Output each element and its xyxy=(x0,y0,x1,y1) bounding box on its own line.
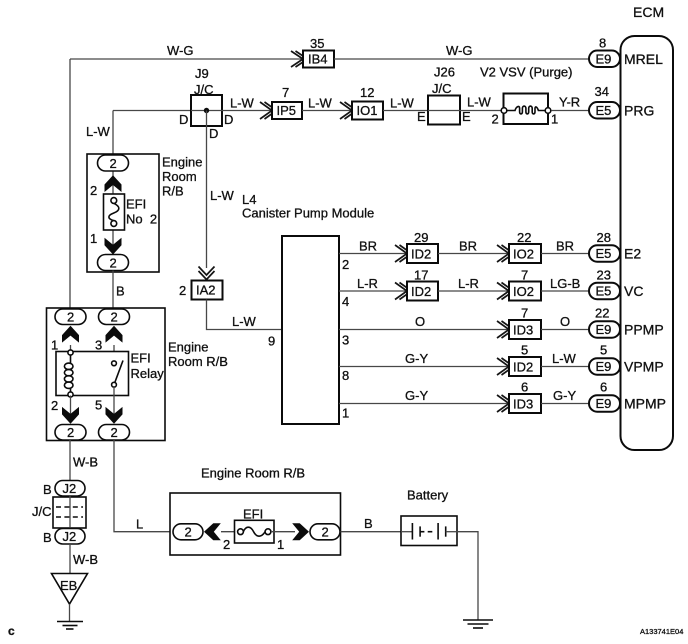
svg-text:L-R: L-R xyxy=(458,276,479,291)
connector E5 E2 xyxy=(589,245,620,262)
wire through J26 xyxy=(428,110,460,112)
svg-text:BR: BR xyxy=(556,239,574,254)
wire J26 to VSV xyxy=(460,110,504,112)
VSV pin 1 node circle xyxy=(545,108,551,114)
cavity oval 2 (bottom-left) xyxy=(173,524,203,540)
svg-text:1: 1 xyxy=(51,338,58,353)
connector J2 lower xyxy=(55,529,85,545)
svg-text:E5: E5 xyxy=(596,246,612,261)
svg-text:ID2: ID2 xyxy=(513,360,533,375)
wire relay pin3 upper xyxy=(113,345,115,361)
svg-text:2: 2 xyxy=(67,425,74,440)
battery dash xyxy=(428,531,433,533)
wire pin2 to ID2 xyxy=(339,253,407,255)
svg-text:L-W: L-W xyxy=(390,96,415,111)
svg-text:35: 35 xyxy=(310,36,324,51)
svg-text:E: E xyxy=(462,109,471,124)
svg-text:B: B xyxy=(43,530,52,545)
junction J9 J/C box xyxy=(191,95,222,126)
svg-text:IO2: IO2 xyxy=(513,284,534,299)
svg-text:22: 22 xyxy=(595,306,609,321)
wire L-W from x113 into J9 xyxy=(113,110,191,112)
svg-text:34: 34 xyxy=(595,84,609,99)
svg-text:7: 7 xyxy=(282,85,289,100)
wire J9 drop to IA2 xyxy=(206,111,208,269)
relay coil terminal top xyxy=(68,350,73,355)
svg-text:ID2: ID2 xyxy=(411,247,431,262)
svg-text:J9: J9 xyxy=(195,66,209,81)
svg-text:L-W: L-W xyxy=(232,314,257,329)
wire pin1 to ID3 xyxy=(339,403,509,405)
arrow down (relay pin 2) xyxy=(62,407,79,424)
relay switch blade xyxy=(114,361,123,385)
svg-text:Relay: Relay xyxy=(131,366,165,381)
svg-text:E5: E5 xyxy=(596,103,612,118)
svg-text:2: 2 xyxy=(492,112,499,127)
svg-text:Engine: Engine xyxy=(168,340,208,355)
cavity oval 2 (bottom-right) xyxy=(310,524,340,540)
wire ID2 to IO2 row1 xyxy=(438,253,509,255)
svg-text:4: 4 xyxy=(342,294,349,309)
connector E9 PPMP xyxy=(589,321,620,338)
wire J9 to IP5 xyxy=(222,110,272,112)
J/C dashed line upper xyxy=(56,506,83,508)
arrow left (EFI fuse pin 2) xyxy=(204,523,221,540)
connector ID2 row2 xyxy=(407,282,438,301)
wire W-G left vertical drop to EFI relay xyxy=(69,59,71,309)
wire B from fuse block to relay block xyxy=(112,271,114,311)
wire IA2 down and right to module pin 9 xyxy=(207,300,283,330)
svg-text:2: 2 xyxy=(110,255,117,270)
wire inside fuse block upper xyxy=(112,171,114,194)
wire IO1 to J26 xyxy=(383,110,428,112)
svg-text:Engine Room R/B: Engine Room R/B xyxy=(201,466,305,481)
svg-text:17: 17 xyxy=(414,268,428,283)
connector IP5 xyxy=(272,102,302,119)
wire relay pin5 lower xyxy=(113,387,115,422)
chevron into ID2 (29) xyxy=(395,245,412,262)
wire battery to ground xyxy=(457,532,478,620)
connector IO1 xyxy=(352,102,383,120)
svg-text:IO2: IO2 xyxy=(513,247,534,262)
wire relay pin2 lower xyxy=(70,396,72,423)
svg-text:3: 3 xyxy=(95,338,102,353)
connector IB4 xyxy=(303,51,334,68)
wire vertical x113 down to EFI No2 fuse block xyxy=(112,111,114,157)
svg-text:No 2: No 2 xyxy=(126,212,157,227)
chevron into IO2 (22) xyxy=(497,245,514,262)
wire relay pin1 upper xyxy=(70,345,72,352)
arrow up (relay pin 1) xyxy=(62,326,79,343)
svg-text:E9: E9 xyxy=(596,322,612,337)
svg-text:2: 2 xyxy=(90,183,97,198)
svg-text:W-B: W-B xyxy=(73,552,98,567)
wire W-B relay to J2 xyxy=(69,440,71,481)
svg-text:3: 3 xyxy=(342,333,349,348)
svg-text:1: 1 xyxy=(90,231,97,246)
svg-text:PPMP: PPMP xyxy=(624,322,664,338)
wire arrow to fuse xyxy=(221,531,238,533)
svg-text:2: 2 xyxy=(223,537,230,552)
connector IO2 row1 xyxy=(509,244,541,263)
svg-text:ECM: ECM xyxy=(633,4,664,20)
wire inside fuse block lower xyxy=(112,230,114,255)
svg-text:9: 9 xyxy=(268,334,275,349)
battery internal wire left xyxy=(401,531,412,533)
fuse element S-curve xyxy=(109,203,119,221)
arrow down (relay pin 5) xyxy=(106,407,123,424)
svg-text:L-W: L-W xyxy=(230,96,255,111)
svg-text:6: 6 xyxy=(521,380,528,395)
battery internal wire right xyxy=(446,531,457,533)
fuse EFI body (bottom) xyxy=(235,520,275,543)
fuse terminal top circle xyxy=(111,198,117,204)
svg-text:EFI: EFI xyxy=(126,197,146,212)
wire ID3 to E9 row3 xyxy=(541,329,590,331)
svg-text:W-B: W-B xyxy=(73,455,98,470)
svg-text:EB: EB xyxy=(60,578,77,593)
arrow up (relay pin 3) xyxy=(106,326,123,343)
svg-text:8: 8 xyxy=(342,368,349,383)
fuse terminal left circle xyxy=(238,529,244,535)
svg-text:12: 12 xyxy=(360,85,374,100)
wire ID3 to E9 row5 xyxy=(541,403,590,405)
svg-text:1: 1 xyxy=(277,537,284,552)
svg-text:LG-B: LG-B xyxy=(550,276,580,291)
chevron into ID3 (6) xyxy=(497,395,514,412)
battery plate short 2 xyxy=(445,526,447,536)
battery plate long 2 xyxy=(437,523,439,540)
svg-text:V2 VSV (Purge): V2 VSV (Purge) xyxy=(480,65,573,80)
svg-text:23: 23 xyxy=(597,268,611,283)
ground symbol (EB) xyxy=(57,621,83,623)
svg-text:1: 1 xyxy=(551,112,558,127)
svg-text:ID3: ID3 xyxy=(513,323,533,338)
svg-text:E9: E9 xyxy=(596,396,612,411)
svg-text:D: D xyxy=(209,126,218,141)
svg-text:D: D xyxy=(224,112,233,127)
wire EB to ground xyxy=(69,604,71,621)
wire ID2 to E9 row4 xyxy=(541,366,590,368)
svg-text:28: 28 xyxy=(597,230,611,245)
cavity oval 2 (relay bottom-right) xyxy=(99,425,130,441)
svg-text:L-W: L-W xyxy=(308,96,333,111)
cavity oval 2 (bottom of fuse block) xyxy=(98,255,129,271)
svg-text:B: B xyxy=(364,516,373,531)
relay switch contact lower xyxy=(112,382,117,387)
wire W-B J2 to EB xyxy=(69,544,71,574)
connector E9 MREL xyxy=(589,51,620,68)
connector ID3 row5 xyxy=(509,394,541,413)
wire through J9 xyxy=(191,110,222,112)
wire VSV to ECM PRG xyxy=(552,110,590,112)
wire IO2 to E5 row1 xyxy=(541,253,590,255)
junction J26 J/C box xyxy=(428,96,460,125)
relay block Engine Room R/B xyxy=(47,308,166,441)
fuse EFI No.2 body xyxy=(104,194,125,230)
svg-text:IB4: IB4 xyxy=(308,52,328,67)
svg-text:Canister Pump Module: Canister Pump Module xyxy=(242,206,374,221)
svg-text:B: B xyxy=(43,482,52,497)
svg-text:2: 2 xyxy=(111,310,118,325)
VSV coil xyxy=(504,106,548,114)
svg-text:W-G: W-G xyxy=(167,43,193,58)
wire pin8 to ID2 xyxy=(339,366,509,368)
svg-text:ID3: ID3 xyxy=(513,397,533,412)
svg-text:MREL: MREL xyxy=(624,51,663,67)
svg-text:2: 2 xyxy=(51,398,58,413)
wire through J/C xyxy=(69,496,71,529)
svg-text:L-W: L-W xyxy=(467,95,492,110)
svg-text:2: 2 xyxy=(111,425,118,440)
svg-text:J2: J2 xyxy=(63,529,77,544)
svg-text:5: 5 xyxy=(95,398,102,413)
ground symbol (battery) xyxy=(463,619,493,621)
wire W-G horizontal left segment xyxy=(70,58,303,60)
svg-text:6: 6 xyxy=(600,380,607,395)
chevron into ID3 (7) xyxy=(497,321,514,338)
arrow right (EFI fuse pin 1) xyxy=(292,523,309,540)
chevron down into IA2 xyxy=(199,267,215,280)
svg-text:8: 8 xyxy=(599,36,606,51)
svg-text:BR: BR xyxy=(359,239,377,254)
connector IA2 xyxy=(192,281,223,300)
connector IO2 row2 xyxy=(509,282,541,301)
svg-text:J26: J26 xyxy=(434,65,455,80)
svg-text:BR: BR xyxy=(459,239,477,254)
wire pin4 to ID2 xyxy=(339,290,407,292)
ECM block xyxy=(621,36,674,450)
solenoid V2 VSV body xyxy=(504,94,549,125)
svg-text:L: L xyxy=(136,517,143,532)
svg-text:7: 7 xyxy=(521,268,528,283)
wire IO2 to E5 row2 xyxy=(541,290,590,292)
wire ID2 to IO2 row2 xyxy=(438,290,509,292)
battery plate short 1 xyxy=(419,526,421,536)
svg-text:J/C: J/C xyxy=(32,504,52,519)
svg-text:L-W: L-W xyxy=(552,351,577,366)
svg-text:MPMP: MPMP xyxy=(624,396,666,412)
svg-text:2: 2 xyxy=(185,525,192,540)
cavity oval 2 (relay top-left) xyxy=(55,309,86,325)
svg-text:PRG: PRG xyxy=(624,103,654,119)
connector E9 VPMP xyxy=(589,358,620,375)
chevron into IB4 xyxy=(291,51,308,67)
VSV pin 2 node circle xyxy=(501,108,507,114)
svg-text:c: c xyxy=(8,624,15,638)
svg-text:O: O xyxy=(415,314,425,329)
junction block bottom Engine Room R/B xyxy=(170,493,341,555)
arrow up (fuse pin 2) xyxy=(105,175,122,192)
connector ID2 row4 xyxy=(509,357,541,376)
svg-text:G-Y: G-Y xyxy=(405,388,428,403)
svg-text:Engine: Engine xyxy=(162,155,202,170)
connector ID3 row3 xyxy=(509,320,541,339)
svg-text:2: 2 xyxy=(179,283,186,298)
junction J/C box (J2) xyxy=(53,497,86,528)
svg-text:Room: Room xyxy=(162,169,197,184)
wire pin3 to ID3 xyxy=(339,329,509,331)
svg-text:W-G: W-G xyxy=(446,43,472,58)
svg-text:EFI: EFI xyxy=(243,507,263,522)
cavity oval 2 (relay top-right) xyxy=(99,309,130,325)
svg-text:L-W: L-W xyxy=(86,124,111,139)
svg-text:5: 5 xyxy=(600,343,607,358)
svg-text:2: 2 xyxy=(322,525,329,540)
cavity oval 2 (relay bottom-left) xyxy=(55,425,86,441)
relay switch contact upper xyxy=(112,361,117,366)
svg-text:2: 2 xyxy=(67,310,74,325)
fuse element curve (bottom) xyxy=(243,527,265,536)
wire B to battery xyxy=(341,531,402,533)
relay EFI body xyxy=(56,352,129,396)
svg-text:R/B: R/B xyxy=(162,184,184,199)
svg-text:Room R/B: Room R/B xyxy=(168,354,228,369)
svg-text:ID2: ID2 xyxy=(411,284,431,299)
arrow down (fuse pin 1) xyxy=(105,238,122,255)
svg-text:EFI: EFI xyxy=(131,351,151,366)
svg-text:L-R: L-R xyxy=(357,276,378,291)
connector J2 upper xyxy=(55,481,85,497)
chevron into IO1 xyxy=(340,102,357,119)
svg-text:VPMP: VPMP xyxy=(624,359,664,375)
svg-text:IO1: IO1 xyxy=(357,103,378,118)
fuse block Engine Room R/B (EFI No.2) xyxy=(87,154,159,272)
wire IP5 to IO1 xyxy=(302,110,352,112)
relay coil terminal bottom xyxy=(68,392,73,397)
svg-text:O: O xyxy=(560,314,570,329)
wire L from relay to bottom R/B xyxy=(114,440,173,532)
svg-text:Y-R: Y-R xyxy=(559,95,580,110)
fuse terminal right circle xyxy=(265,529,271,535)
svg-text:IA2: IA2 xyxy=(196,283,216,298)
svg-text:Battery: Battery xyxy=(407,488,449,503)
svg-text:E5: E5 xyxy=(596,284,612,299)
fuse terminal bottom circle xyxy=(111,221,117,227)
svg-text:G-Y: G-Y xyxy=(553,388,576,403)
connector E5 PRG xyxy=(589,102,620,119)
chevron into ID2 (17) xyxy=(395,283,412,300)
svg-text:E: E xyxy=(417,109,426,124)
ground triangle EB xyxy=(52,574,88,605)
node dot J9 xyxy=(204,108,209,113)
svg-text:J/C: J/C xyxy=(432,81,452,96)
svg-text:G-Y: G-Y xyxy=(405,351,428,366)
connector ID2 row1 xyxy=(407,244,438,263)
cavity oval 2 (top of fuse block) xyxy=(98,155,129,171)
svg-text:29: 29 xyxy=(414,230,428,245)
svg-text:1: 1 xyxy=(342,406,349,421)
canister pump module body L4 xyxy=(282,236,339,424)
battery tick 1 xyxy=(420,531,424,533)
battery plate long 1 xyxy=(411,523,413,540)
wire fuse to arrow xyxy=(271,531,295,533)
svg-text:L-W: L-W xyxy=(210,188,235,203)
svg-text:5: 5 xyxy=(521,343,528,358)
svg-text:IP5: IP5 xyxy=(277,103,297,118)
svg-text:B: B xyxy=(116,284,125,299)
svg-text:2: 2 xyxy=(110,156,117,171)
chevron into IP5 xyxy=(260,102,277,119)
J/C dashed line lower xyxy=(56,516,83,518)
relay coil xyxy=(70,355,72,364)
svg-text:E9: E9 xyxy=(596,52,612,67)
svg-text:22: 22 xyxy=(517,230,531,245)
chevron into IO2 (7) xyxy=(497,283,514,300)
svg-text:7: 7 xyxy=(521,306,528,321)
connector E9 MPMP xyxy=(589,395,620,412)
svg-text:2: 2 xyxy=(342,257,349,272)
svg-text:J2: J2 xyxy=(63,481,77,496)
chevron into ID2 (5) xyxy=(497,358,514,375)
wire W-G from IB4 to ECM MREL xyxy=(334,58,590,60)
svg-text:A133741E04: A133741E04 xyxy=(640,627,683,636)
svg-text:E2: E2 xyxy=(624,246,641,262)
svg-text:VC: VC xyxy=(624,283,643,299)
svg-text:D: D xyxy=(179,112,188,127)
connector E5 VC xyxy=(589,283,620,300)
battery body xyxy=(401,516,457,546)
svg-text:E9: E9 xyxy=(596,359,612,374)
